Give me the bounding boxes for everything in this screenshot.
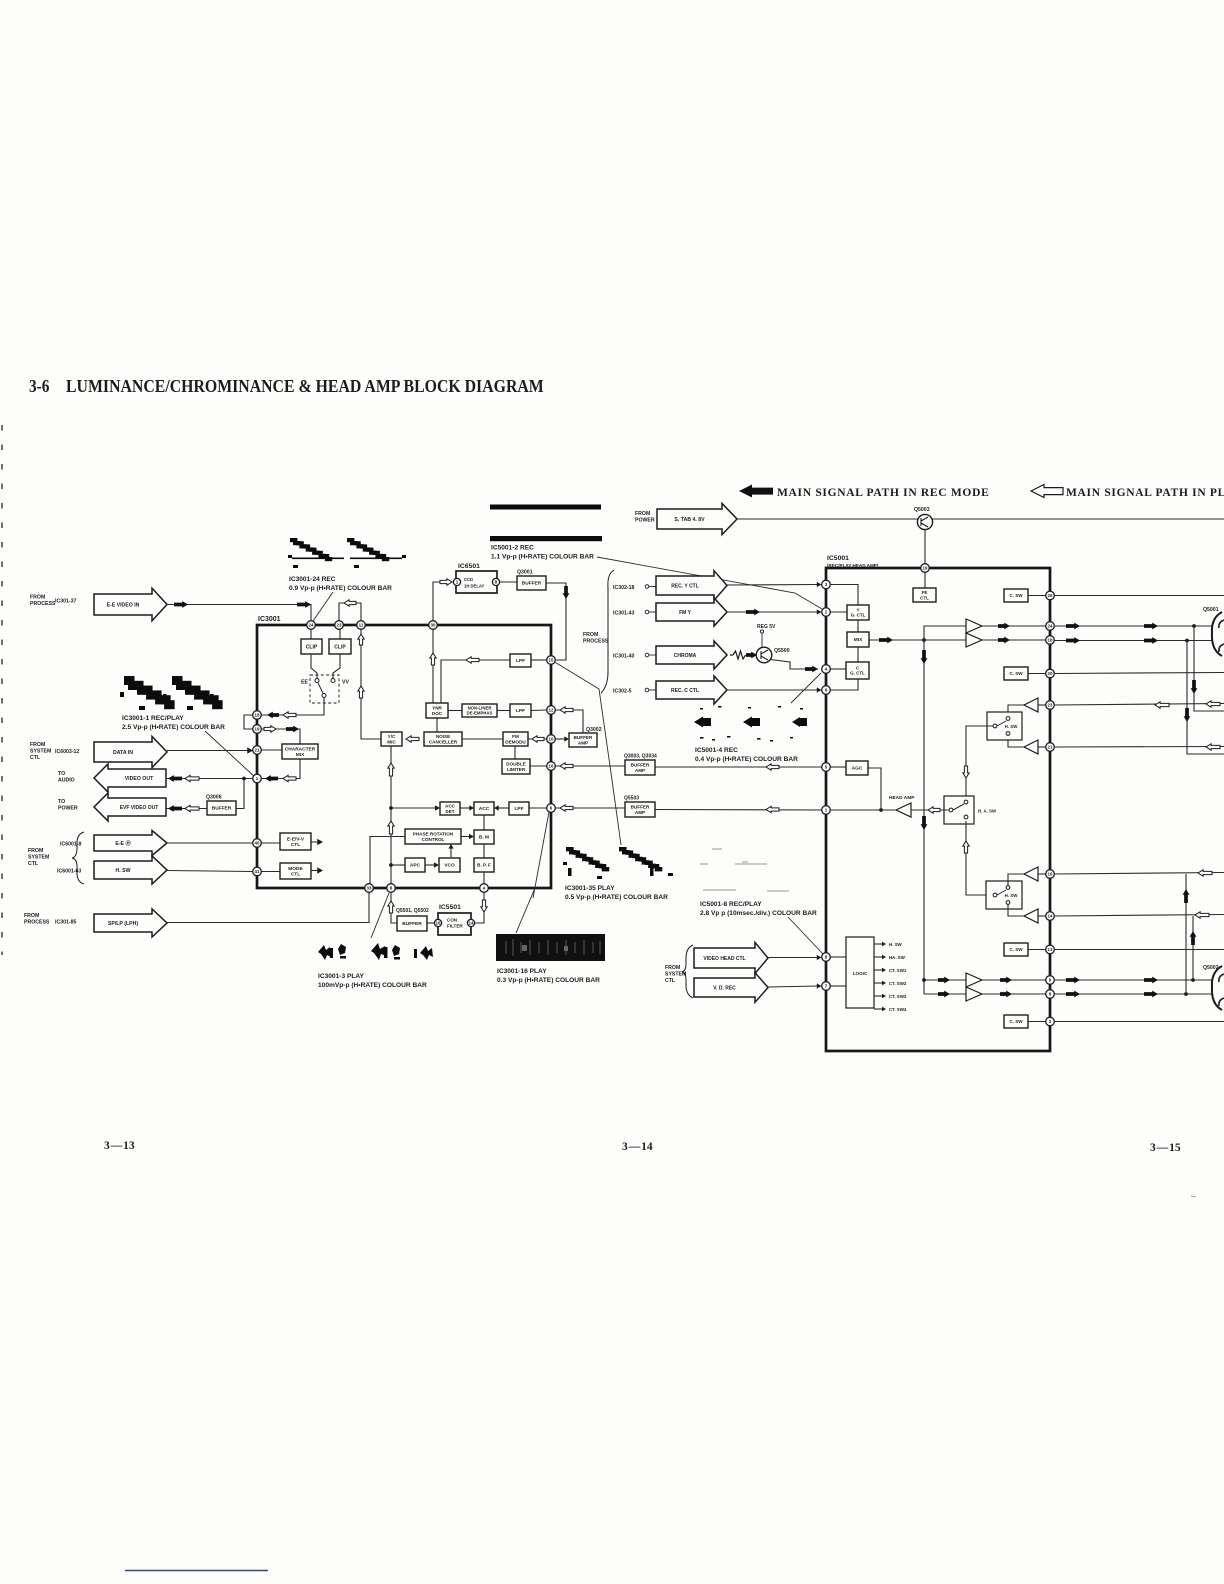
wire pin19 to FE CTL	[924, 568, 926, 588]
input arrow REC.C CTL	[656, 676, 727, 704]
open arrow up on YNR wire	[430, 653, 436, 665]
buffer Q3006	[207, 801, 236, 815]
svg-text:IC5001-8 REC/PLAY: IC5001-8 REC/PLAY	[700, 901, 762, 908]
junction head vertical 4	[1184, 992, 1188, 996]
svg-text:41: 41	[255, 869, 260, 874]
svg-text:IC5001: IC5001	[827, 555, 849, 562]
svg-text:IC301-37: IC301-37	[55, 599, 76, 605]
wire MIX output to rec amps	[869, 639, 966, 641]
wire pin11 down to Y/C MIX	[361, 629, 381, 739]
solid arrow down on Q3001 wire	[563, 586, 570, 599]
block C G.CTL	[846, 662, 869, 679]
solid arrow rec line 2b	[1144, 637, 1158, 644]
wire pin4 down to CON FILTER	[475, 892, 484, 923]
pin IC3001-18 left	[253, 711, 262, 720]
svg-text:MIX: MIX	[296, 752, 305, 758]
svg-text:APC: APC	[410, 863, 421, 869]
wire pin19 to CHARACTER MIX	[261, 729, 300, 744]
switch common contact	[322, 694, 326, 698]
svg-text:G. CTL: G. CTL	[850, 671, 865, 676]
footer blue rule	[125, 1570, 268, 1572]
wire switch to pin 18	[261, 698, 324, 716]
svg-text:HA. SW: HA. SW	[889, 955, 906, 960]
waveform IC3001-1 blob left	[124, 676, 171, 704]
svg-text:IC302-5: IC302-5	[613, 689, 632, 695]
svg-text:26: 26	[1048, 593, 1053, 598]
wire play line 21 from right edge	[1054, 746, 1224, 749]
pin IC5001-7 left	[822, 982, 831, 991]
svg-text:MAIN SIGNAL PATH IN REC M: MAIN SIGNAL PATH IN REC MODE	[777, 487, 989, 499]
pin IC3001-33 bottom	[365, 884, 374, 893]
solid arrow into rec amp D	[938, 991, 950, 998]
pin IC3001-4 bottom	[480, 884, 489, 893]
svg-text:Q3002: Q3002	[586, 727, 602, 733]
svg-text:LUMINANCE/CHROMINANCE & HEAD A: LUMINANCE/CHROMINANCE & HEAD AMP BLOCK D…	[66, 376, 544, 396]
wire V.D.REC to pin 7	[768, 986, 818, 987]
amp play lower D	[1024, 909, 1038, 923]
svg-text:VIDEO HEAD CTL: VIDEO HEAD CTL	[703, 956, 745, 962]
amp rec lower C	[966, 973, 982, 987]
pin IC5001-2	[822, 608, 831, 617]
wire REG 5V to Q5500	[761, 633, 763, 648]
block B.M	[474, 830, 494, 844]
svg-text:IC3001-3 PLAY: IC3001-3 PLAY	[318, 973, 365, 980]
solid arrow on FM Y wire	[746, 609, 760, 616]
svg-text:IC5001-4 REC: IC5001-4 REC	[695, 747, 738, 754]
solid arrow to pin18b	[998, 637, 1010, 644]
wire rec vertical bottom to rec amp D	[924, 993, 966, 995]
pin IC3001-23 top	[335, 621, 344, 630]
solid arrow to pin 8r	[1000, 991, 1012, 998]
svg-text:FM Y: FM Y	[679, 610, 692, 616]
LOGIC output CT.SW2	[874, 982, 884, 984]
solid arrow on E-E video wire	[174, 601, 188, 608]
block C.SW 2	[1004, 667, 1028, 680]
block NON-LINER DE-EMPHAS	[462, 704, 497, 717]
svg-text:16: 16	[549, 764, 554, 769]
pin IC5501-16	[434, 919, 441, 926]
wire H.SW lower top to play amp C	[1008, 874, 1024, 886]
pin IC3001-41 left	[253, 867, 262, 876]
svg-text:IC6001-8: IC6001-8	[60, 842, 81, 848]
svg-text:C. SW: C. SW	[1009, 671, 1023, 676]
junction MIX vertical	[922, 638, 926, 642]
svg-text:FROM: FROM	[28, 848, 43, 854]
svg-text:Q5003: Q5003	[914, 507, 930, 513]
transistor Q5500	[756, 647, 772, 663]
legend solid arrow MAIN SIGNAL PATH IN REC MODE	[739, 485, 773, 498]
solid arrow rec line 4b	[1144, 991, 1158, 998]
faint washed waveform traces	[700, 849, 789, 891]
open arrow up on YC vertical 1	[388, 763, 394, 776]
wire head lower vertical 2	[1192, 916, 1194, 980]
wire FM DEMODU to pin 10	[528, 738, 547, 740]
svg-text:10: 10	[549, 737, 554, 742]
svg-text:14: 14	[1048, 914, 1053, 919]
leader line IC3001-1 to pin 1	[205, 731, 256, 778]
svg-text:BUFFER: BUFFER	[522, 581, 542, 587]
svg-text:2.5 Vp-p (H•RATE) COLOUR BAR: 2.5 Vp-p (H•RATE) COLOUR BAR	[122, 724, 225, 731]
wire SP/LP to IC3001 bottom pin 33	[167, 891, 369, 923]
wire pin23 to play amp upper	[1038, 704, 1046, 706]
svg-text:BUFFER: BUFFER	[212, 806, 232, 812]
svg-text:E-E Ⓗ: E-E Ⓗ	[115, 839, 131, 847]
wire play line 14 from right edge	[1054, 915, 1224, 917]
svg-text:TO: TO	[58, 799, 65, 805]
contact VV	[331, 679, 335, 683]
wire head return vertical 2	[1187, 641, 1224, 755]
block AGC	[846, 761, 868, 775]
svg-text:Q5500: Q5500	[774, 648, 790, 654]
block FE CTL	[913, 588, 936, 602]
wire IC5001 pin 1 to Q5503 buffer	[655, 809, 822, 812]
input arrow S.TAB 4.8V	[657, 503, 737, 534]
block APC	[405, 858, 425, 872]
pin IC5001-23 right	[1046, 701, 1055, 710]
wire C.SW4 line to right edge	[1054, 1021, 1224, 1023]
head drum Q5002 symbol	[1212, 966, 1222, 1010]
wire DATA IN to pin 21	[167, 750, 252, 752]
solid arrow into rec amp C	[938, 977, 950, 984]
output arrow VIDEO OUT	[94, 764, 166, 792]
svg-text:MIC: MIC	[387, 739, 396, 744]
amp rec Y lower	[966, 633, 982, 647]
LOGIC output HA.SW	[874, 956, 884, 958]
pin IC3001-21 left	[253, 746, 262, 755]
wire Q5003 to IC5001 pin 19	[924, 530, 926, 564]
pin IC3001-40 left	[253, 839, 262, 848]
open arrow NC to Y/C MIX	[406, 736, 419, 742]
open arrow to pin1	[283, 775, 296, 781]
amp play lower C	[1024, 867, 1038, 881]
wire Q5503 buffer to IC3001 pin 6	[556, 807, 626, 809]
svg-text:B. M: B. M	[479, 835, 489, 841]
block Y/C MIX	[381, 732, 402, 746]
svg-text:FROM: FROM	[30, 742, 45, 748]
wire FM Y to IC5001 pin 2	[727, 611, 818, 613]
wire REC.Y CTL to IC5001 pin 3	[727, 584, 818, 587]
solid arrow char mix	[286, 726, 299, 733]
leader line IC5001-8 to pin 8	[788, 917, 823, 954]
svg-text:DE-EMPHAS: DE-EMPHAS	[467, 710, 493, 715]
open arrow up near pin11	[358, 634, 364, 645]
pin IC5001-1	[822, 806, 831, 815]
svg-text:VV: VV	[342, 680, 349, 686]
pin IC3001-16 right	[547, 762, 556, 771]
block CON FILTER IC5501	[438, 913, 471, 935]
svg-text:18: 18	[255, 713, 260, 718]
junction rec lower	[922, 978, 926, 982]
solid arrow down rec vertical upper	[921, 650, 928, 664]
wire VCO to PRC	[450, 847, 452, 858]
svg-text:HEAD AMP: HEAD AMP	[889, 795, 915, 801]
solid arrow down rec vertical lower	[921, 816, 928, 830]
svg-text:IC301-85: IC301-85	[55, 920, 76, 926]
wire VIDEO HEAD CTL to pin 8	[768, 957, 818, 959]
svg-text:DEMODU: DEMODU	[505, 739, 526, 744]
pin IC5001-18 right	[1046, 636, 1055, 645]
svg-text:SYSTEM: SYSTEM	[30, 749, 51, 755]
svg-text:Q5001: Q5001	[1203, 607, 1219, 613]
svg-text:CT. SW3: CT. SW3	[889, 994, 907, 999]
wire DE-EMPHAS to YNR DOC	[448, 710, 462, 712]
solid arrow at corner of E-E video wire	[297, 601, 311, 608]
svg-text:1.1 Vp-p (H•RATE) COLOUR BAR: 1.1 Vp-p (H•RATE) COLOUR BAR	[491, 554, 594, 561]
svg-text:V. D. REC: V. D. REC	[713, 985, 736, 991]
wire Y/C MIX down to bottom pin 8	[390, 746, 392, 888]
junction AGC feed	[879, 808, 883, 812]
svg-text:H. SW: H. SW	[116, 868, 131, 874]
pin IC3001-8 bottom	[387, 884, 396, 893]
wire pin23 to CLIP2	[339, 625, 341, 639]
svg-text:Q5501, Q5502: Q5501, Q5502	[396, 908, 429, 914]
amp play upper A	[1024, 698, 1038, 712]
open arrow up from H.SW lower	[963, 841, 969, 853]
input arrow E-E	[94, 831, 167, 856]
open arrow into IC6501	[440, 579, 452, 585]
wire external loop pin18-pin19	[244, 715, 253, 729]
svg-text:FROM: FROM	[635, 511, 650, 517]
buffer Q3001	[517, 576, 546, 590]
svg-text:0.9 Vp-p (H•RATE) COLOUR BAR: 0.9 Vp-p (H•RATE) COLOUR BAR	[289, 585, 392, 592]
wire CHARACTER MIX to pin 1	[261, 759, 300, 779]
wire MIX to C G.CTL	[857, 647, 859, 662]
block VCO	[439, 858, 460, 872]
open arrow EVF	[185, 805, 199, 811]
svg-text:C. SW: C. SW	[1009, 1019, 1023, 1024]
wire ACC DET to ACC	[460, 807, 474, 809]
wire CLIP2 to VV contact	[333, 654, 340, 678]
block E-E/V-V CTL	[280, 833, 311, 850]
wire FM DEMODU to DOUBLE LIMITER	[514, 746, 516, 759]
solid arrow rec line 2a	[1066, 637, 1080, 644]
svg-text:24: 24	[1048, 624, 1053, 629]
block LPF 1	[510, 654, 531, 667]
solid arrow rec line 3b	[1144, 977, 1158, 984]
svg-text:Q3003, Q3034: Q3003, Q3034	[624, 754, 657, 760]
svg-text:16: 16	[436, 921, 441, 926]
block MODE CTL	[280, 863, 311, 879]
wire amp to pin 18	[982, 639, 1046, 641]
svg-text:11: 11	[359, 623, 364, 628]
wire LPF1 to YNR DOC top	[441, 660, 510, 703]
input arrow FM Y	[656, 598, 727, 626]
pin IC3001-24 top	[307, 621, 316, 630]
block LPF 2	[510, 704, 531, 717]
svg-text:EVF VIDEO OUT: EVF VIDEO OUT	[120, 805, 159, 811]
solid arrow rec line 1b	[1144, 623, 1158, 630]
buffer amp Q5503	[625, 802, 655, 817]
wire buffer to CON FILTER	[427, 922, 438, 924]
EE/VV switch dashed box	[310, 675, 339, 703]
svg-text:DATA IN: DATA IN	[113, 750, 133, 756]
input arrow E-E VIDEO IN	[94, 588, 167, 621]
block CLIP 1	[301, 639, 322, 654]
open arrow play 23 a	[1155, 702, 1169, 708]
wire head amp to pin 1	[830, 809, 896, 811]
wire H.A.SW bottom to H.SW lower	[966, 821, 993, 895]
svg-text:Q3001: Q3001	[517, 570, 533, 576]
amp rec lower D	[966, 987, 982, 1001]
svg-text:BUFFER: BUFFER	[402, 921, 422, 927]
wire IC5001 pin 5 to Q3003 buffer	[655, 766, 822, 768]
solid arrow video out	[168, 775, 182, 782]
open arrow FM demodu	[532, 736, 544, 742]
wire C.SW3 line to right edge	[1054, 949, 1224, 951]
svg-text:MODE: MODE	[288, 866, 303, 872]
svg-text:19: 19	[255, 727, 260, 732]
svg-text:LPF: LPF	[514, 806, 523, 812]
pin IC5001-14 right	[1046, 912, 1055, 921]
open arrow char mix	[264, 726, 276, 732]
svg-text:G. CTL: G. CTL	[851, 613, 866, 618]
svg-text:FILTER: FILTER	[447, 924, 463, 929]
block NOISE CANCELLER	[424, 732, 462, 746]
svg-text:CT. SW2: CT. SW2	[889, 981, 907, 986]
wire play amp B to H.SW bottom	[1008, 737, 1024, 747]
wire pin3 to Y G.CTL	[830, 585, 858, 606]
svg-text:AUDIO: AUDIO	[58, 778, 75, 784]
svg-text:CONTROL: CONTROL	[422, 837, 445, 842]
wire buffer Q3006 to EVF out	[166, 808, 207, 810]
solid arrow into pin 4	[805, 666, 818, 673]
wire Y G.CTL to MIX	[857, 620, 859, 632]
block LOGIC	[846, 937, 874, 1008]
svg-text:IC3001-1 REC/PLAY: IC3001-1 REC/PLAY	[122, 715, 184, 722]
svg-text:IC5001-2 REC: IC5001-2 REC	[491, 545, 534, 552]
svg-text:ACC: ACC	[479, 806, 490, 812]
svg-text:3 — 14: 3 — 14	[622, 1141, 653, 1153]
svg-text:MIX: MIX	[854, 637, 863, 643]
svg-text:LPF: LPF	[516, 708, 525, 714]
block CHARACTER MIX	[282, 744, 318, 759]
svg-text:VIDEO OUT: VIDEO OUT	[125, 776, 154, 782]
svg-text:AGC: AGC	[852, 766, 863, 772]
delay line IC6501 CCD 1H DELAY	[456, 571, 497, 593]
wire play line 16 from right edge	[1054, 873, 1224, 875]
solid arrow rec line 1a	[1066, 623, 1080, 630]
svg-text:FROM: FROM	[583, 632, 598, 638]
solid arrow rec line 3a	[1066, 977, 1080, 984]
svg-text:CTL: CTL	[920, 595, 929, 600]
wire IC3001 pin10 to Q3002 left	[556, 738, 567, 740]
wire rec line to head Q5002 upper	[1054, 979, 1213, 981]
amp rec Y upper	[966, 619, 982, 633]
svg-text:16: 16	[1048, 872, 1053, 877]
svg-text:PROCESS: PROCESS	[30, 601, 56, 607]
buffer amp Q3003/Q3034	[625, 760, 655, 775]
wire loop pin23-pin11 over top edge	[339, 603, 361, 621]
svg-text:CT. SW4: CT. SW4	[889, 1007, 907, 1012]
svg-text:IC6501: IC6501	[458, 563, 480, 570]
svg-text:EE: EE	[301, 680, 308, 686]
pin IC5001-13 right	[1046, 945, 1055, 954]
wire pin8 down to buffer Q5501	[391, 892, 397, 923]
open arrow down to H.A.SW	[963, 766, 969, 778]
svg-text:IC3001-16 PLAY: IC3001-16 PLAY	[497, 968, 547, 975]
svg-text:IC301-40: IC301-40	[613, 654, 634, 660]
svg-text:3 — 13: 3 — 13	[104, 1140, 135, 1152]
svg-text:18: 18	[1048, 638, 1053, 643]
solid arrow into Q5500	[746, 652, 757, 659]
solid arrow to pin24	[998, 623, 1010, 630]
output arrow EVF VIDEO OUT	[94, 793, 166, 821]
svg-text:SYSTEM: SYSTEM	[28, 855, 49, 861]
pin IC3001-19 left	[253, 725, 262, 734]
block YNR DOC	[426, 703, 448, 718]
wire Q3003 buffer to IC3001 pin 16	[556, 765, 626, 767]
wire IC3001 pin 30 to IC6501 input	[433, 582, 453, 625]
wire pin30 down to YNR DOC	[432, 625, 434, 703]
wire rec Y line lower to head Q5001	[1054, 640, 1213, 642]
svg-text:IC6003-12: IC6003-12	[55, 749, 79, 755]
wire NOISE CANCELLER to FM DEMODU	[462, 738, 503, 740]
solid arrow rec line 4a	[1066, 991, 1080, 998]
junction video out / EVF	[242, 777, 246, 781]
svg-text:40: 40	[255, 841, 260, 846]
svg-text:3-6: 3-6	[29, 376, 49, 396]
svg-text:CTL: CTL	[291, 871, 300, 877]
switch arm	[318, 683, 323, 694]
pin IC6501-8	[492, 578, 499, 585]
wire main rec vertical	[923, 640, 925, 994]
wire C.SW2 to pin 20	[1028, 673, 1046, 675]
switch H.SW upper	[987, 712, 1022, 740]
wire pin4 to C G.CTL left	[830, 668, 846, 670]
block MIX	[847, 632, 869, 647]
wire head lower vertical 1	[1185, 874, 1187, 994]
solid arrow to pin 9	[1000, 977, 1012, 984]
waveform IC3001-3 burst blobs	[318, 943, 433, 960]
junction head vertical 2	[1185, 639, 1189, 643]
svg-text:0.3 Vp-p (H•RATE) COLOUR BAR: 0.3 Vp-p (H•RATE) COLOUR BAR	[497, 977, 600, 984]
node FROM SYSTEM CTL brace	[72, 832, 84, 884]
solid arrow EVF	[168, 805, 182, 812]
svg-text:2.8 Vp p (10msec./div.) COLOU: 2.8 Vp p (10msec./div.) COLOUR BAR	[700, 910, 817, 917]
junction APC feed	[389, 863, 393, 867]
block CLIP 2	[329, 639, 351, 654]
pin IC5501-14	[467, 919, 474, 926]
solid arrow MIX out	[879, 637, 893, 644]
svg-text:IC5501: IC5501	[439, 904, 461, 911]
solid arrow down head return 1	[1191, 680, 1198, 694]
wire pin41 to MODE CTL	[261, 871, 280, 873]
open arrow on play chroma wire	[766, 806, 779, 812]
bracket FROM PROCESS	[601, 570, 614, 693]
wire H.A.SW to head amp	[911, 809, 949, 811]
LOGIC output CT.SW1	[874, 969, 884, 971]
svg-text:C. SW: C. SW	[1009, 593, 1023, 598]
IC3001 body	[257, 625, 551, 888]
junction head vertical 1	[1192, 624, 1196, 628]
svg-text:E-E/V-V: E-E/V-V	[287, 837, 305, 843]
svg-text:13: 13	[1048, 947, 1053, 952]
switch H.SW lower	[986, 881, 1022, 909]
open arrow video out	[185, 775, 199, 781]
solid arrow to pin1	[265, 775, 278, 782]
buffer Q5501/Q5502	[397, 916, 427, 931]
wire APC to VCO	[425, 864, 436, 866]
wire YNR DOC to NOISE CANCELLER	[436, 718, 438, 732]
pin IC3001-12 right	[547, 706, 556, 715]
open arrow up mid	[358, 686, 364, 698]
wire C G.CTL to pin 6	[830, 679, 858, 690]
open arrow down from pin4	[481, 900, 487, 912]
junction ACC DET feed	[389, 806, 393, 810]
pin IC3001-30 top	[429, 621, 438, 630]
svg-text:MAIN SIGNAL PATH IN PLAY: MAIN SIGNAL PATH IN PLAY	[1066, 487, 1224, 499]
brace FROM SYSTEM CTL lower	[682, 945, 693, 998]
